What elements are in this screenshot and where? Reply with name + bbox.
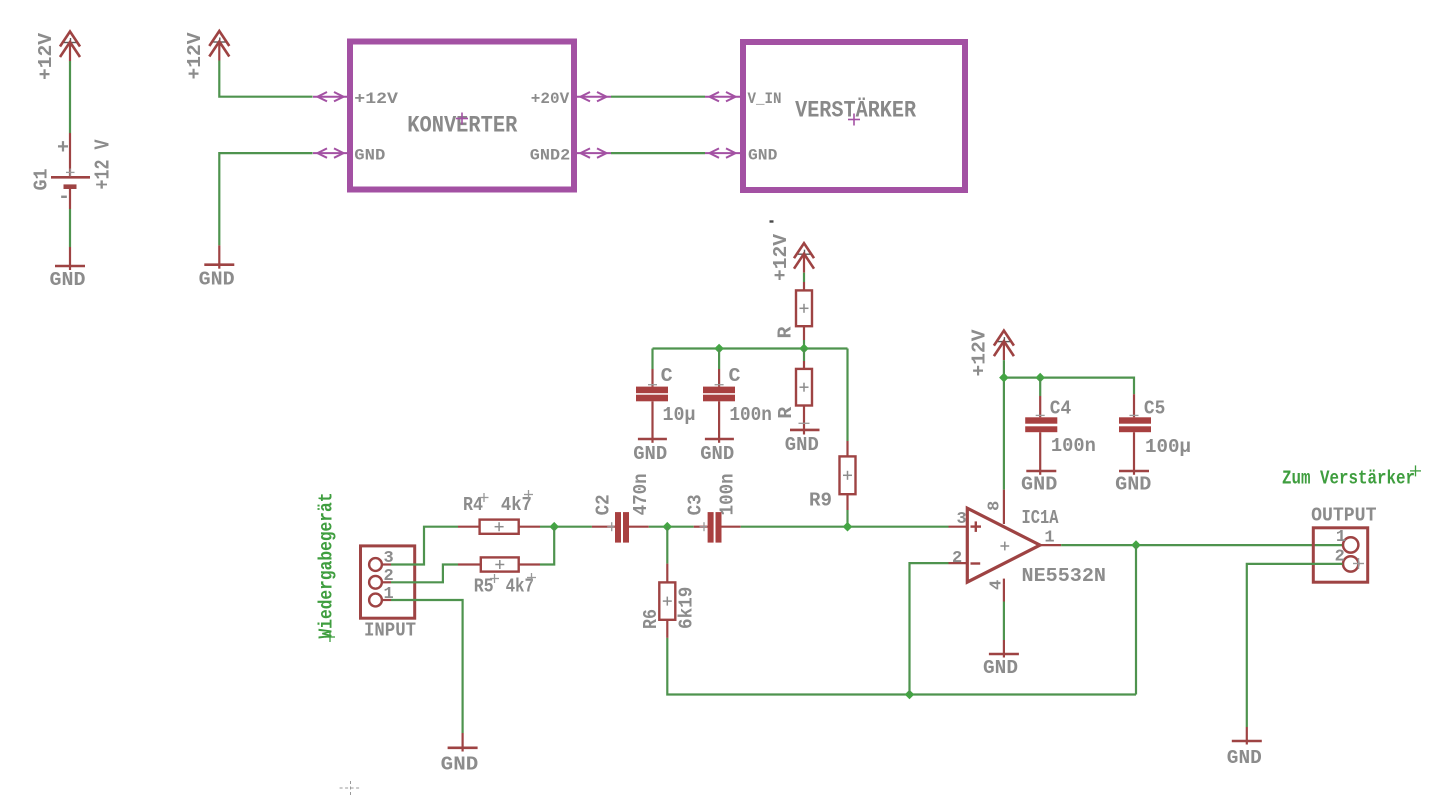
svg-text:4k7: 4k7 — [506, 576, 534, 598]
svg-text:+: + — [57, 137, 69, 160]
wire C3 to opamp input — [741, 526, 949, 528]
svg-text:6k19: 6k19 — [675, 587, 697, 629]
ground symbol (input) — [441, 733, 479, 776]
svg-text:GND: GND — [1021, 473, 1057, 495]
svg-text:GND: GND — [1227, 747, 1262, 769]
junction dot (R4/R5 merge) — [549, 522, 559, 532]
resistor R4 — [458, 520, 540, 534]
junction dot (R6 tap) — [663, 522, 673, 532]
pin +20V of konverter — [531, 90, 611, 108]
capacitor C2 — [592, 512, 649, 543]
wire R9 to signal line — [846, 510, 848, 527]
svg-text:OUTPUT: OUTPUT — [1311, 505, 1376, 527]
wire feedback to opamp inverting input — [910, 563, 949, 694]
junction dot (C4 rail) — [1035, 373, 1045, 383]
svg-text:R9: R9 — [809, 490, 832, 512]
wire battery top — [69, 61, 71, 133]
svg-text:GND: GND — [700, 443, 734, 465]
battery G1 — [51, 133, 90, 209]
svg-text:GND: GND — [748, 147, 777, 165]
wire output pin 2 — [1247, 564, 1343, 727]
ground symbol (konverter branch) — [199, 245, 235, 290]
wire opamp pin 4 to ground — [1003, 602, 1005, 641]
svg-text:+20V: +20V — [531, 90, 570, 108]
supply +12V symbol (filter branch) — [794, 243, 814, 273]
svg-text:R: R — [775, 406, 797, 419]
origin cross (R5 value) — [527, 573, 536, 582]
wire R6 to feedback rail — [667, 638, 1136, 695]
pin GND2 of konverter — [530, 147, 611, 165]
svg-text:Wiedergabegerät: Wiedergabegerät — [316, 493, 338, 639]
origin cross (R5 label) — [490, 574, 499, 583]
svg-text:+12V: +12V — [770, 233, 792, 281]
svg-text:GND: GND — [983, 657, 1018, 679]
svg-text:+12V: +12V — [969, 329, 991, 377]
svg-text:1: 1 — [1336, 528, 1346, 547]
capacitor C 10u — [636, 349, 668, 439]
svg-text:GND: GND — [50, 269, 86, 291]
verstaerker module box — [743, 42, 965, 190]
svg-text:8: 8 — [986, 501, 1005, 511]
svg-text:4k7: 4k7 — [501, 494, 532, 516]
wire pin2 to R5 — [382, 565, 458, 583]
origin cross (Zum Verstaerker) — [1410, 465, 1421, 476]
opamp pin 8 stub — [1003, 490, 1005, 524]
opamp pin 3 stub — [949, 526, 968, 528]
svg-text:C5: C5 — [1144, 397, 1165, 419]
wire node line to R9 — [846, 349, 848, 442]
wire R to node line — [803, 340, 805, 349]
svg-text:+12V: +12V — [354, 90, 398, 108]
junction dot (C 100n rail) — [714, 344, 724, 354]
junction dot (feedback tap) — [905, 690, 915, 700]
svg-text:C: C — [661, 365, 673, 387]
opamp pin 1 stub — [1040, 544, 1061, 546]
verstaerker origin cross — [848, 114, 860, 126]
wire decoupling rail — [1004, 378, 1134, 395]
wire +12V to konverter — [219, 61, 312, 97]
svg-text:GND: GND — [199, 269, 235, 291]
resistor R6 — [659, 564, 675, 638]
svg-text:470n: 470n — [630, 473, 652, 515]
junction dot (R rail) — [799, 344, 809, 354]
wire supply to resistor R top — [803, 273, 805, 282]
svg-text:100n: 100n — [729, 404, 772, 426]
svg-text:2: 2 — [952, 549, 962, 568]
svg-text:R6: R6 — [640, 609, 662, 629]
opamp pin 2 stub — [949, 562, 968, 564]
origin cross (R4 label) — [480, 493, 489, 502]
ground symbol (output) — [1227, 727, 1262, 769]
wire supply to opamp pin 8 — [1003, 360, 1005, 490]
svg-text:INPUT: INPUT — [364, 620, 416, 642]
svg-text:1: 1 — [1044, 529, 1054, 548]
wire R4 to junction — [540, 526, 592, 528]
ground symbol (C 10u) — [633, 439, 667, 465]
wire pin3 to R4 — [382, 527, 458, 565]
resistor R5 — [458, 557, 540, 571]
wire C2 to C3 — [649, 526, 694, 528]
resistor R (lower) — [796, 349, 812, 425]
stray mark under verstaerker box — [770, 220, 774, 222]
connector INPUT box — [361, 546, 415, 618]
svg-text:C3: C3 — [684, 494, 706, 515]
ground symbol (C 100n filter) — [700, 439, 734, 465]
pin +12V of konverter — [313, 90, 398, 108]
supply +12V symbol (konverter branch) — [209, 31, 229, 61]
ground symbol (opamp) — [983, 640, 1019, 679]
svg-text:GND: GND — [354, 147, 385, 165]
svg-text:4: 4 — [987, 580, 1006, 590]
opamp - input marker — [971, 562, 981, 564]
svg-text:V_IN: V_IN — [748, 90, 782, 108]
ground symbol (C5) — [1115, 471, 1151, 496]
capacitor C3 — [694, 512, 741, 543]
wire R5 up to junction — [540, 527, 554, 565]
ground symbol (lower R) — [785, 424, 820, 456]
wire R6 tap down — [666, 527, 668, 564]
wire +20V to V_IN — [611, 96, 705, 98]
wire GND2 to GND — [611, 152, 705, 154]
sheet origin crosshair — [340, 781, 362, 795]
svg-text:1: 1 — [384, 585, 394, 604]
input pin circle 1 — [369, 594, 382, 607]
ground symbol (C4) — [1021, 471, 1057, 496]
input pin circle 3 — [369, 558, 382, 571]
konverter origin cross — [456, 113, 468, 125]
op-amp IC1A triangle — [967, 508, 1040, 582]
svg-text:10µ: 10µ — [663, 404, 696, 426]
svg-text:GND: GND — [1115, 473, 1151, 495]
svg-text:GND: GND — [441, 754, 479, 776]
junction dot (output feedback tap) — [1131, 540, 1141, 550]
input pin circle 2 — [369, 576, 382, 589]
node line (filter rail) — [653, 347, 848, 349]
wire gnd from konverter — [219, 153, 312, 245]
svg-text:GND: GND — [633, 443, 667, 465]
svg-text:3: 3 — [957, 510, 967, 529]
wire battery bottom — [69, 209, 71, 247]
connector OUTPUT box — [1313, 528, 1367, 582]
origin cross (R4 value) — [524, 490, 533, 499]
svg-text:GND: GND — [785, 434, 819, 456]
resistor R9 — [840, 441, 856, 510]
opamp origin cross — [1000, 542, 1009, 551]
konverter module box — [350, 42, 574, 190]
svg-text:C2: C2 — [592, 494, 614, 515]
opamp + input marker — [971, 521, 982, 532]
svg-text:+12V: +12V — [35, 32, 57, 80]
svg-text:Zum Verstärker: Zum Verstärker — [1282, 468, 1415, 490]
origin cross (output connector) — [1353, 558, 1364, 569]
svg-text:C: C — [729, 365, 741, 387]
wire feedback down from output — [1135, 545, 1137, 694]
svg-text:-: - — [58, 186, 70, 209]
junction dot (R9 tap) — [843, 522, 853, 532]
supply +12V symbol (opamp branch) — [994, 331, 1014, 361]
capacitor C 100n (filter) — [703, 349, 735, 439]
svg-text:IC1A: IC1A — [1022, 507, 1059, 529]
svg-text:NE5532N: NE5532N — [1022, 565, 1107, 587]
svg-text:100n: 100n — [1051, 435, 1096, 457]
opamp pin 4 stub — [1003, 579, 1005, 602]
wire opamp output — [1061, 544, 1342, 546]
junction dot (pin8 rail) — [999, 373, 1009, 383]
pin V_IN of verstaerker — [705, 90, 782, 108]
svg-text:100µ: 100µ — [1145, 436, 1191, 458]
svg-text:+12 V: +12 V — [93, 139, 116, 189]
svg-text:+12V: +12V — [184, 32, 206, 80]
capacitor C4 — [1025, 378, 1057, 471]
resistor R (upper) — [796, 282, 812, 340]
svg-text:100n: 100n — [717, 473, 739, 515]
supply +12V symbol (top-left, battery branch) — [60, 32, 80, 62]
pin GND of konverter — [313, 147, 385, 165]
svg-text:G1: G1 — [31, 169, 53, 191]
svg-text:R: R — [775, 326, 797, 339]
ground symbol (battery) — [50, 247, 86, 291]
output pin circle 2 — [1343, 556, 1358, 571]
pin GND of verstaerker — [705, 147, 777, 165]
capacitor C5 — [1119, 394, 1151, 470]
origin cross (Wiedergabegeraet) — [325, 632, 335, 642]
svg-text:C4: C4 — [1050, 397, 1071, 419]
output pin circle 1 — [1343, 537, 1358, 552]
wire pin1 to ground — [382, 600, 463, 733]
svg-text:GND2: GND2 — [530, 147, 570, 165]
